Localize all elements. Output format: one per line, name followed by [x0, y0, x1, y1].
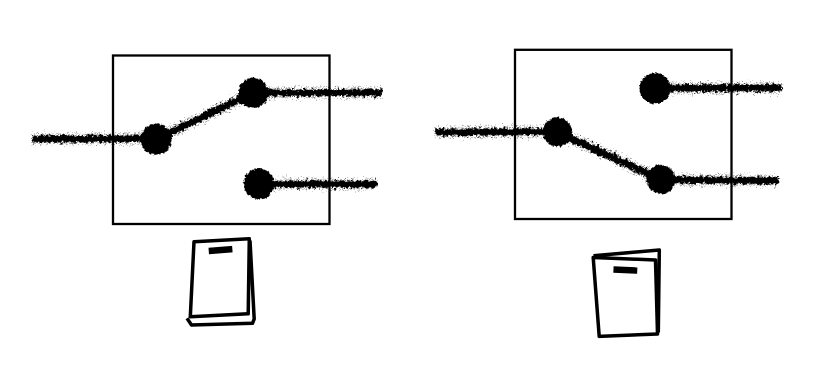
- node S2 common pole: [543, 117, 572, 146]
- wire S2 pole to throw B (closed contact): [558, 132, 661, 179]
- node S2 throw A: [640, 73, 671, 104]
- node S1 throw B: [244, 169, 275, 200]
- node S1 throw A: [238, 78, 268, 108]
- wire S1 throw B output: [259, 182, 377, 187]
- wire S1 pole to throw A (closed contact): [156, 93, 253, 139]
- switch S2 enclosure box: [515, 50, 732, 219]
- wire S2 throw A output: [655, 85, 782, 90]
- wire S2 common input: [436, 129, 558, 134]
- wire S2 throw B output: [661, 180, 779, 181]
- switch S1 enclosure box: [113, 56, 330, 225]
- wire S1 throw A output: [253, 90, 382, 95]
- wire S1 common input: [33, 136, 156, 141]
- node S1 common pole: [141, 124, 172, 155]
- rocker switch icon S1 (tilted, up position): [187, 239, 254, 325]
- node S2 throw B: [646, 165, 675, 194]
- rocker switch icon S2 (upright, down position): [593, 250, 659, 336]
